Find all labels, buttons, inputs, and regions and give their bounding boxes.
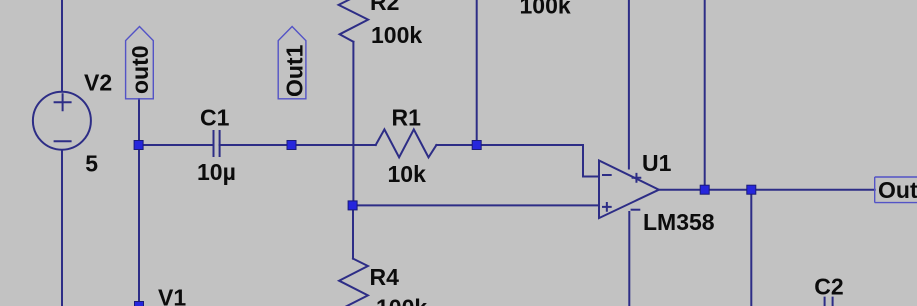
op-amp noninverting mark (603, 203, 611, 211)
capacitor C2 plates (cut at bottom) (825, 298, 833, 306)
svg-text:R4: R4 (370, 264, 400, 290)
wire J4 to R4 (352, 205, 354, 258)
flag Out2 rectangle (875, 177, 917, 203)
V2 plus sign (55, 94, 71, 110)
wire V1 top (138, 145, 140, 306)
op-amp U1 triangle (599, 161, 659, 219)
svg-text:out0: out0 (127, 45, 153, 94)
wire op-amp V+ pin (628, 0, 630, 169)
junction J2 Out1 (287, 141, 296, 150)
svg-text:C1: C1 (200, 104, 230, 130)
junction J5 output (700, 185, 709, 194)
svg-text:100k: 100k (371, 22, 422, 48)
vertical wire x704.7 (704, 0, 706, 190)
wire main net left (139, 144, 214, 146)
svg-text:10µ: 10µ (197, 159, 236, 185)
svg-text:R2: R2 (370, 0, 399, 15)
junction J3 feedback (472, 141, 481, 150)
svg-text:U1: U1 (642, 150, 672, 176)
wire op-amp V- pin (628, 212, 630, 306)
op-amp inverting mark (603, 174, 611, 176)
svg-text:Out2: Out2 (878, 177, 917, 203)
junction J7 V1 top (135, 302, 144, 306)
vertical wire to C2 (750, 190, 752, 306)
op-amp power minus mark (632, 209, 640, 211)
svg-text:R1: R1 (392, 104, 422, 130)
vertical wire feedback x477 (476, 0, 478, 145)
junction J6 output-C2 (747, 185, 756, 194)
resistor R1 zigzag (376, 129, 437, 157)
junction J4 (348, 201, 357, 210)
capacitor C1 plates (214, 131, 220, 156)
svg-text:V2: V2 (84, 69, 112, 95)
resistor R2 zigzag (cut at top) (339, 0, 369, 42)
wire corner to inverting input (583, 145, 599, 177)
wire noninverting input (353, 204, 599, 206)
wire V2 top (61, 0, 63, 91)
svg-text:10k: 10k (388, 161, 427, 187)
flag out0 pentagon (126, 27, 154, 99)
V2 minus sign (55, 140, 71, 142)
svg-text:C2: C2 (814, 274, 843, 300)
svg-text:5: 5 (85, 150, 98, 176)
op-amp power plus mark (633, 174, 641, 182)
svg-text:100k: 100k (520, 0, 571, 18)
wire main net mid (220, 144, 376, 146)
wire V2 bottom (61, 151, 63, 306)
svg-text:Out1: Out1 (281, 44, 307, 97)
voltage source V2 (33, 92, 91, 150)
resistor R4 zigzag (cut at bottom) (339, 259, 368, 306)
wire R2 down through crossing to J4 (352, 42, 354, 206)
svg-text:V1: V1 (158, 285, 186, 306)
junction J1 (134, 141, 143, 150)
flag Out1 pentagon (278, 27, 306, 99)
svg-text:100k: 100k (376, 295, 427, 306)
wire main net right (436, 144, 583, 146)
svg-text:LM358: LM358 (643, 209, 715, 235)
wire output net (659, 189, 875, 191)
wire out0 stub (138, 99, 140, 145)
